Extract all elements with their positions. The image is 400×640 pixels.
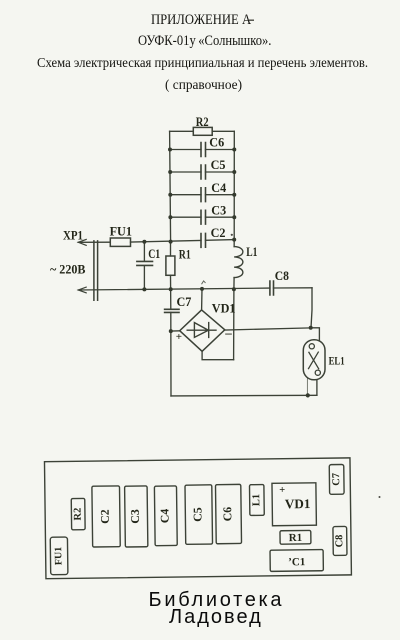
board part L1 — [249, 485, 264, 516]
speck right of board — [379, 496, 381, 498]
wire: lamp bottom second lead — [306, 379, 308, 395]
wire: bridge top lead — [201, 289, 203, 310]
diode bridge VD1 — [180, 310, 225, 351]
wire: C4 row — [170, 194, 234, 196]
title line 3 — [37, 55, 368, 71]
capacitor C5 — [201, 165, 206, 179]
node dots C4 row — [168, 193, 172, 197]
diode symbol inside VD1 — [187, 323, 216, 338]
node dot lamp top — [309, 326, 313, 330]
svg-text:FU1: FU1 — [110, 225, 132, 239]
title line 1 — [151, 12, 251, 29]
wire: bridge bottom loop to right rail — [202, 351, 234, 359]
board part R2 — [71, 498, 85, 529]
svg-text:C7: C7 — [177, 295, 192, 309]
svg-text:C8: C8 — [275, 269, 289, 283]
node dot lamp bottom — [306, 393, 310, 397]
board part C6 — [215, 484, 241, 543]
svg-text:XP1: XP1 — [63, 228, 83, 242]
board part C2 — [92, 486, 120, 547]
svg-text:+: + — [279, 485, 285, 496]
svg-text:L1: L1 — [251, 494, 262, 506]
board part C5 — [185, 485, 213, 545]
lamp EL1 X symbol — [309, 352, 319, 369]
capacitor C2 — [201, 233, 206, 247]
connector XP1 bars — [94, 241, 98, 300]
svg-text:VD1: VD1 — [285, 496, 311, 511]
speck near C2 label — [231, 234, 233, 236]
svg-text:C8: C8 — [334, 535, 345, 548]
connector XP1 pin arrow top — [78, 239, 86, 245]
footer line 1 — [149, 589, 285, 612]
board part C7 — [329, 464, 344, 494]
connector XP1 pin arrow bottom — [78, 287, 86, 293]
svg-text:–: – — [224, 325, 232, 340]
capacitor C8 — [270, 281, 274, 295]
board part C3 — [125, 486, 148, 547]
wire: C5 row — [170, 171, 234, 173]
wire: right rail C8 corner down to lamp node — [311, 288, 312, 328]
footer line 2 — [169, 606, 263, 629]
svg-text:C6: C6 — [209, 136, 224, 150]
lamp EL1 envelope — [303, 340, 325, 380]
wire: C3 row — [170, 216, 234, 218]
node dots C3 row — [168, 215, 172, 219]
wire: ladder right rail — [233, 131, 236, 359]
node dots C6 row — [168, 148, 172, 152]
title line 4 — [165, 77, 242, 93]
svg-text:C7: C7 — [331, 473, 342, 486]
svg-text:EL1: EL1 — [329, 355, 345, 367]
board part C1 — [270, 550, 323, 572]
node dots C5 row — [168, 170, 172, 174]
wire: ladder left rail — [170, 131, 171, 396]
wire: bottom return line — [171, 394, 317, 397]
lamp EL1 bottom electrode — [315, 370, 320, 375]
board part C8 — [333, 526, 347, 555]
svg-text:R2: R2 — [196, 115, 209, 129]
svg-text:FU1: FU1 — [53, 547, 64, 565]
artifact tick above bridge — [202, 281, 205, 284]
svg-text:L1: L1 — [246, 245, 257, 259]
node dots top AC row — [142, 240, 146, 244]
svg-text:VD1: VD1 — [212, 302, 236, 316]
svg-text:R1: R1 — [289, 532, 303, 544]
svg-text:C3: C3 — [211, 203, 226, 217]
lamp EL1 top electrode — [309, 344, 314, 349]
capacitor C7 — [165, 309, 179, 312]
board part C4 — [154, 486, 177, 546]
svg-text:R1: R1 — [179, 248, 191, 262]
wire: top AC line with C2 — [78, 240, 234, 243]
capacitor C1 leads — [143, 242, 145, 290]
wire: C7 to bridge + corner — [171, 330, 180, 332]
svg-text:~ 220В: ~ 220В — [50, 263, 86, 277]
capacitor C3 — [201, 210, 206, 224]
wire: lamp bottom lead — [316, 380, 318, 395]
board part R1 — [280, 530, 311, 544]
svg-text:C6: C6 — [220, 507, 234, 522]
node dot C7 bottom — [169, 329, 173, 333]
capacitor C6 — [201, 143, 206, 157]
capacitor C1 — [137, 261, 153, 265]
svg-text:C4: C4 — [211, 181, 226, 195]
wire: R2 top row — [170, 130, 235, 132]
svg-text:C3: C3 — [128, 509, 142, 524]
speck right of title — [249, 20, 254, 21]
wire: bridge minus output to lamp rail — [225, 328, 311, 330]
board outline — [44, 458, 351, 579]
svg-text:C2: C2 — [98, 509, 112, 524]
svg-text:ʼC1: ʼC1 — [288, 556, 305, 568]
svg-text:C1: C1 — [148, 247, 160, 261]
node dots bottom AC row — [142, 287, 146, 291]
svg-text:C5: C5 — [211, 158, 226, 172]
svg-text:R2: R2 — [73, 508, 84, 521]
inductor L1 — [234, 247, 243, 278]
fuse FU1 — [110, 238, 130, 246]
svg-text:+: + — [176, 331, 182, 343]
title line 2 — [138, 33, 271, 50]
svg-text:C4: C4 — [157, 509, 171, 524]
resistor R1 — [166, 256, 175, 275]
board part VD1 — [272, 483, 316, 526]
wire: bottom AC line — [78, 288, 312, 290]
PCB board group — [44, 458, 351, 579]
wire: C6 row — [170, 149, 234, 151]
resistor R2 — [193, 127, 212, 135]
board part FU1 — [50, 537, 68, 575]
wire: step into lamp top — [311, 328, 320, 341]
svg-text:C2: C2 — [211, 226, 226, 240]
svg-text:C5: C5 — [190, 507, 204, 522]
capacitor C4 — [201, 188, 206, 202]
